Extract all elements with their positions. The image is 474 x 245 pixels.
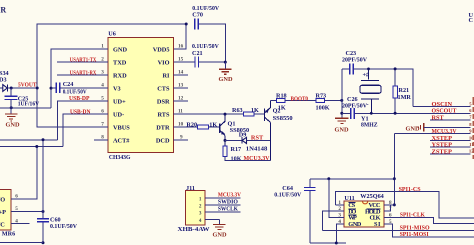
svg-text:RXD: RXD bbox=[113, 72, 127, 79]
crystal Y1 8MHZ bbox=[360, 69, 381, 113]
wire TXD pin2 bbox=[57, 61, 108, 63]
svg-text:R17: R17 bbox=[231, 146, 242, 153]
svg-text:GND: GND bbox=[113, 46, 127, 53]
pin names U6 right column bbox=[153, 46, 170, 144]
svg-text:DTR: DTR bbox=[156, 124, 170, 131]
svg-text:RI: RI bbox=[163, 72, 171, 79]
node junction USB-DN riser bbox=[35, 145, 38, 148]
wire C23 to OSCIN corner bbox=[354, 69, 414, 107]
svg-text:UD-: UD- bbox=[113, 111, 124, 118]
wire R18 to R73 bbox=[285, 99, 316, 101]
svg-text:RST: RST bbox=[251, 135, 264, 142]
node junction crystal top bbox=[367, 68, 370, 71]
ground symbol under C21 bbox=[219, 62, 232, 74]
svg-text:SWDIO: SWDIO bbox=[218, 199, 238, 206]
wire MCU3.3V drop column bbox=[393, 134, 395, 205]
svg-text:5: 5 bbox=[469, 101, 472, 106]
wire UD+ pin5 bbox=[57, 101, 108, 140]
wire SPI1-CS row with CS drop bbox=[336, 192, 474, 219]
capacitor C26 bbox=[351, 108, 355, 119]
svg-text:U11: U11 bbox=[344, 195, 354, 202]
ground symbol under C25 bbox=[5, 108, 18, 121]
svg-text:1: 1 bbox=[199, 196, 202, 202]
svg-text:W25Q64: W25Q64 bbox=[360, 193, 384, 200]
svg-text:8MHZ: 8MHZ bbox=[361, 121, 378, 128]
wire OSCIN top row bbox=[342, 68, 350, 70]
svg-text:R21: R21 bbox=[399, 87, 410, 94]
pin stub DTR pin10 bbox=[174, 126, 198, 128]
svg-text:1MR: 1MR bbox=[398, 94, 412, 101]
power port GND sideways bbox=[406, 123, 471, 132]
wire ground rail bottom left bbox=[0, 242, 43, 244]
svg-text:D9: D9 bbox=[239, 131, 247, 138]
pin names U11 left bbox=[348, 202, 361, 228]
node junction pin5/C60 bbox=[42, 210, 45, 213]
wire connector pin5 to C60 column bbox=[11, 211, 43, 213]
overline HOLD bbox=[367, 208, 381, 210]
connector P1 usb partially visible bbox=[0, 190, 11, 231]
svg-text:10K: 10K bbox=[231, 155, 242, 162]
node junction Q1 collector bbox=[224, 113, 227, 116]
pin numbers U6 left bbox=[101, 44, 104, 141]
svg-text:RTS: RTS bbox=[157, 111, 170, 118]
resistor R17 bbox=[223, 146, 227, 156]
svg-text:15: 15 bbox=[178, 57, 184, 63]
svg-text:1N4148: 1N4148 bbox=[246, 145, 267, 152]
wire RTS pin11 to R63 bbox=[174, 113, 244, 115]
node junction GND/C24 bbox=[50, 87, 53, 90]
node junction R21 top bbox=[394, 67, 397, 70]
wire R21 top bbox=[394, 69, 396, 86]
svg-text:C70: C70 bbox=[192, 11, 203, 18]
resistor R63 bbox=[244, 112, 255, 116]
pin names U11 right bbox=[365, 202, 381, 228]
capacitor C64 bbox=[304, 179, 316, 243]
svg-text:20PF/50V: 20PF/50V bbox=[342, 57, 368, 64]
svg-text:ER: ER bbox=[0, 6, 6, 15]
transistor Q2 SS8550 bbox=[265, 100, 271, 160]
pin1 marker arc red bbox=[363, 201, 368, 204]
node junction 5VOUT riser bbox=[36, 87, 39, 90]
svg-text:SWCLK: SWCLK bbox=[218, 206, 238, 213]
wire R20 to Q1 base bbox=[208, 126, 219, 128]
wire RST row bbox=[430, 119, 471, 121]
svg-text:+#: +# bbox=[363, 72, 371, 79]
wire SPI1-MISO row bbox=[322, 230, 474, 232]
pin stub RI 14 bbox=[174, 74, 188, 76]
svg-text:U6: U6 bbox=[108, 30, 116, 37]
svg-text:VDD5: VDD5 bbox=[153, 46, 170, 53]
diode D3 SS34 bbox=[0, 84, 37, 91]
resistor R20 bbox=[198, 125, 209, 129]
svg-text:8: 8 bbox=[469, 122, 472, 127]
pin numbers J11 bbox=[199, 196, 202, 224]
wire J11 pin4 to ground bbox=[205, 218, 219, 220]
capacitor C21 bbox=[195, 56, 199, 67]
svg-text:20PF/50V: 20PF/50V bbox=[342, 102, 368, 109]
wire VDD5 pin16 riser bbox=[174, 24, 187, 49]
wire OSCOUT bottom row bbox=[342, 112, 350, 114]
wire R21 bottom bbox=[394, 98, 396, 114]
wire RXD pin3 bbox=[57, 74, 108, 76]
wire DO to MISO drop bbox=[322, 211, 344, 230]
svg-text:SPI1-CLK: SPI1-CLK bbox=[400, 211, 425, 218]
pin stub CS pin1 bbox=[336, 204, 344, 206]
wire XSTEP row bbox=[430, 140, 471, 142]
svg-text:GND: GND bbox=[406, 125, 420, 132]
wire Q1 emitter to D9 bbox=[225, 139, 242, 141]
wire GND to left edge bbox=[0, 107, 51, 109]
ground symbol crystal bbox=[335, 118, 349, 123]
svg-text:ACT#: ACT# bbox=[113, 137, 130, 144]
capacitor C23 bbox=[350, 64, 354, 75]
node junction C21 gnd bbox=[224, 61, 227, 64]
wire J11 pin2 bbox=[205, 204, 241, 206]
wire J11 pin3 bbox=[205, 211, 241, 213]
svg-text:-: - bbox=[367, 101, 369, 108]
svg-text:GND: GND bbox=[213, 231, 227, 238]
svg-text:R73: R73 bbox=[316, 93, 327, 100]
pin numbers U11 left bbox=[338, 200, 341, 225]
svg-text:5VOUT: 5VOUT bbox=[18, 81, 37, 88]
svg-text:4: 4 bbox=[199, 218, 202, 224]
wire R63 to Q2 base bbox=[254, 113, 264, 115]
wire OSCIN row bbox=[413, 106, 471, 108]
svg-text:CTS: CTS bbox=[157, 85, 170, 92]
svg-text:R20: R20 bbox=[186, 122, 197, 129]
node junction USB-DP/C60 column bbox=[42, 138, 45, 141]
svg-text:J11: J11 bbox=[186, 185, 195, 192]
node junction pin4/rail bbox=[335, 242, 338, 245]
chip U11 W25Q64 bbox=[344, 201, 384, 227]
svg-text:D3: D3 bbox=[0, 76, 7, 83]
wire R17 bottom to 3.3V row bbox=[225, 156, 271, 160]
svg-text:V3: V3 bbox=[113, 85, 121, 92]
svg-text:R63: R63 bbox=[232, 107, 243, 114]
node junction D9 row bbox=[224, 139, 227, 142]
svg-text:VBUS: VBUS bbox=[113, 124, 130, 131]
node junction 3.3V/VCC pin8 bbox=[393, 203, 396, 206]
svg-text:DCD: DCD bbox=[156, 137, 170, 144]
svg-text:MCU3.3V: MCU3.3V bbox=[432, 128, 457, 135]
wire USB-DN to left edge bbox=[0, 146, 63, 148]
wire gnd column crystal bbox=[341, 69, 343, 118]
svg-text:GND: GND bbox=[335, 127, 349, 134]
pin stub DCD 9 bbox=[174, 139, 188, 141]
wire OSCOUT row to chip bbox=[354, 112, 470, 114]
wire C21 to gnd node bbox=[199, 61, 226, 63]
pin numbers MCU edge bbox=[469, 101, 474, 153]
wire C70 right to C21 junction bbox=[198, 24, 225, 62]
svg-text:CH343G: CH343G bbox=[109, 154, 131, 161]
wire ZSTEP row bbox=[430, 153, 471, 155]
svg-text:/C: /C bbox=[0, 221, 5, 228]
wire UD- pin6 bbox=[63, 114, 108, 146]
node junction top rail x186 bbox=[185, 23, 188, 26]
svg-text:C24: C24 bbox=[63, 81, 74, 88]
wire R73 to gnd column bbox=[325, 99, 342, 101]
overline DO bbox=[348, 208, 356, 210]
pin stub DSR 12 bbox=[174, 100, 188, 102]
resistor R18 bbox=[277, 98, 286, 102]
svg-text:MR6: MR6 bbox=[2, 231, 15, 238]
svg-text:MCU3.3V: MCU3.3V bbox=[244, 155, 270, 162]
transistor Q1 SS8050 bbox=[220, 114, 226, 146]
ground symbol under J11 bbox=[213, 219, 226, 229]
wire SI pin5 to MOSI row bbox=[384, 224, 474, 237]
node junction C60/rail bbox=[42, 241, 45, 244]
wire CLK pin6 SPI1-CLK row bbox=[384, 218, 474, 224]
svg-text:SI: SI bbox=[374, 221, 381, 228]
svg-text:16: 16 bbox=[178, 44, 184, 50]
wire Q2 top to R18 bbox=[271, 99, 277, 101]
wire 5VOUT to VBUS pin7 bbox=[37, 88, 108, 127]
wire HOLD pin7 to VCC bbox=[384, 205, 391, 211]
svg-text:9: 9 bbox=[469, 129, 472, 134]
wire C60 to ground rail bbox=[42, 222, 44, 242]
svg-text:BOOT0: BOOT0 bbox=[291, 96, 309, 103]
node junction 3.3V/C64 row bbox=[393, 177, 396, 180]
svg-text:1UF/16V: 1UF/16V bbox=[18, 101, 40, 108]
node junction crystal bottom bbox=[370, 112, 373, 115]
svg-text:C: C bbox=[469, 17, 473, 24]
svg-text:2: 2 bbox=[199, 204, 202, 210]
svg-text:100K: 100K bbox=[316, 105, 330, 112]
svg-text:SS8550: SS8550 bbox=[273, 115, 293, 122]
capacitor C24 bbox=[51, 83, 108, 94]
resistor R21 bbox=[393, 86, 398, 98]
pin stub ACT# 8 bbox=[94, 139, 108, 141]
wire VIO pin15 to C21 bbox=[174, 61, 195, 63]
node junction R21 bottom bbox=[394, 112, 397, 115]
svg-text:0.1UF/50V: 0.1UF/50V bbox=[274, 192, 302, 199]
wire YSTEP row bbox=[430, 146, 471, 148]
svg-text:GND: GND bbox=[348, 221, 361, 228]
pin stub VCC pin8 bbox=[384, 204, 394, 206]
svg-text:R18: R18 bbox=[276, 93, 287, 100]
svg-text:/O: /O bbox=[0, 197, 5, 204]
wire C64 row bbox=[310, 178, 395, 180]
wire USB-DP to left edge bbox=[0, 139, 57, 141]
svg-text:0.1UF/50V: 0.1UF/50V bbox=[50, 223, 78, 230]
svg-text:+P: +P bbox=[0, 209, 6, 216]
wire MCU3.3V row bbox=[394, 133, 470, 135]
svg-text:SPI1-MOSI: SPI1-MOSI bbox=[400, 231, 429, 238]
capacitor C70 bbox=[195, 19, 199, 30]
diode D9 1N4148 bbox=[242, 137, 271, 143]
wire C60 column upper bbox=[42, 140, 44, 219]
svg-text:TXD: TXD bbox=[113, 59, 127, 66]
svg-text:VIO: VIO bbox=[158, 59, 170, 66]
chip U6 body bbox=[108, 38, 174, 153]
wire J11 pin1 bbox=[205, 197, 241, 199]
svg-text:SPI1-CS: SPI1-CS bbox=[399, 186, 421, 193]
svg-text:GND: GND bbox=[219, 76, 233, 83]
pin stub connector pin4 bbox=[11, 223, 30, 225]
svg-text:1K: 1K bbox=[278, 105, 286, 112]
svg-text:MCU3.3V: MCU3.3V bbox=[218, 191, 241, 198]
node junction BOOT0 gnd column bbox=[340, 99, 343, 102]
pin numbers U11 right bbox=[389, 200, 392, 225]
svg-text:GND: GND bbox=[6, 121, 20, 128]
pin numbers U6 right bbox=[178, 44, 184, 141]
svg-text:RST: RST bbox=[432, 114, 445, 121]
overline WP bbox=[348, 214, 356, 216]
svg-text:6: 6 bbox=[469, 108, 472, 113]
wire GND pin1 run bbox=[51, 49, 108, 108]
svg-text:C21: C21 bbox=[192, 50, 203, 57]
node junction C64row/U11 column bbox=[327, 177, 330, 180]
wire 5V top rail bbox=[37, 24, 186, 88]
capacitor C60 bbox=[37, 219, 49, 222]
wire connector pin6 riser to USB-DN bbox=[11, 147, 37, 199]
node junction GND/C25 bbox=[10, 106, 13, 109]
mcu edge clipped pin name marks bbox=[472, 97, 474, 159]
svg-text:DSR: DSR bbox=[157, 98, 170, 105]
node junction 5VOUT/C25 bbox=[10, 87, 13, 90]
overline CS bbox=[348, 202, 355, 204]
connector J11 bbox=[186, 191, 206, 226]
svg-text:UD+: UD+ bbox=[113, 98, 126, 105]
svg-text:1K: 1K bbox=[251, 107, 259, 114]
node junction OSCOUT row gnd column bbox=[340, 112, 343, 115]
resistor R73 bbox=[316, 98, 325, 102]
svg-text:3: 3 bbox=[199, 211, 202, 217]
pin names U6 left column bbox=[113, 46, 130, 144]
wire GND pin4 to rail bbox=[336, 224, 344, 243]
svg-text:XHB-4AW: XHB-4AW bbox=[178, 226, 211, 233]
wire GND rail segment right bbox=[310, 242, 346, 244]
capacitor C25 bbox=[5, 88, 18, 108]
svg-text:7: 7 bbox=[469, 115, 472, 120]
wire U11 column to WP bbox=[329, 179, 344, 218]
svg-text:ZSTEP: ZSTEP bbox=[432, 148, 453, 155]
pin stub CTS 13 bbox=[174, 87, 188, 89]
